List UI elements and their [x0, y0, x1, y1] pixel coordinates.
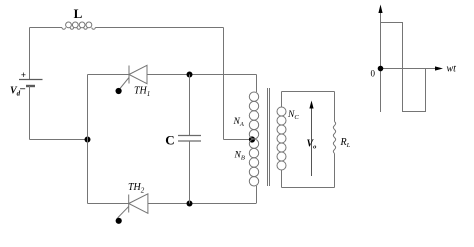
wire capacitor branch lower [189, 141, 191, 204]
svg-text:wt: wt [447, 64, 457, 75]
svg-text:L: L [74, 6, 83, 21]
wire left branch vertical [87, 75, 89, 204]
wire load right upper [334, 92, 336, 122]
inductor L [62, 22, 95, 29]
wire secondary bottom stub [281, 170, 283, 188]
svg-text:RL: RL [340, 137, 351, 149]
wire secondary top stub [281, 92, 283, 108]
waveform vertical axis [378, 5, 382, 113]
wire center tap branch vertical [223, 28, 225, 140]
wire top right horizontal [95, 27, 223, 29]
wire primary top stub [256, 75, 258, 93]
node origin dot [378, 66, 384, 72]
svg-text:Vd–: Vd– [10, 84, 26, 98]
wire left vertical (battery bottom) [29, 86, 31, 140]
wire TH2 horizontal [88, 203, 257, 205]
wire load top [282, 91, 335, 93]
wire primary bottom stub [256, 186, 258, 204]
node junction dot TH1 output [187, 72, 193, 78]
battery Vd [19, 80, 43, 87]
gate TH1 [116, 78, 130, 95]
wire bottom left horizontal [30, 139, 88, 141]
wire TH1 horizontal [88, 74, 257, 76]
node junction dot TH2 output [187, 201, 193, 207]
gate TH2 [116, 207, 129, 224]
waveform horizontal axis [381, 66, 444, 70]
wire load bottom [282, 187, 335, 189]
thyristor TH2 [129, 194, 148, 214]
svg-text:TH1: TH1 [134, 86, 150, 99]
svg-text:0: 0 [371, 69, 376, 79]
transformer primary winding NA NB [249, 92, 258, 186]
svg-text:Vo: Vo [307, 139, 318, 151]
transformer core [268, 88, 270, 186]
svg-text:NA: NA [233, 117, 244, 128]
node center tap dot [249, 136, 255, 142]
svg-text:C: C [165, 133, 174, 148]
svg-text:NB: NB [234, 151, 245, 162]
svg-text:NC: NC [287, 110, 299, 121]
wire center tap horizontal [224, 139, 253, 141]
wire top left horizontal [30, 27, 63, 29]
transformer secondary winding NC [277, 107, 286, 170]
thyristor TH1 [129, 65, 147, 83]
svg-text:+: + [21, 70, 26, 80]
wire left vertical (battery top) [29, 28, 31, 80]
node junction dot left [85, 137, 91, 143]
resistor RL [333, 122, 335, 154]
svg-text:TH2: TH2 [128, 182, 145, 195]
waveform square wave [381, 23, 426, 112]
capacitor C [178, 136, 201, 142]
arrow Vo [309, 101, 313, 177]
wire capacitor branch upper [189, 75, 191, 136]
wire load right lower [334, 154, 336, 188]
